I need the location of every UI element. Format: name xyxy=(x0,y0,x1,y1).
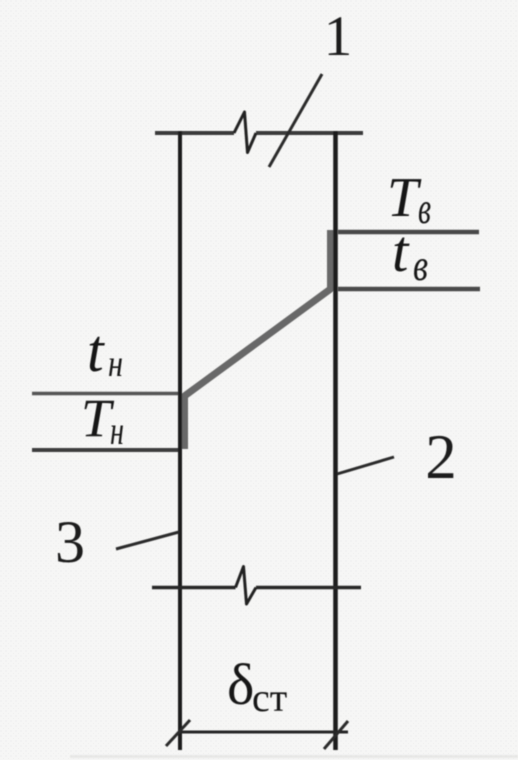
tv level line xyxy=(338,287,480,292)
dimension tick left xyxy=(166,720,190,746)
svg-text:н: н xyxy=(110,408,124,453)
svg-text:t: t xyxy=(87,318,105,384)
svg-text:δ: δ xyxy=(227,652,254,717)
leader line to label 3 xyxy=(116,532,179,549)
svg-text:2: 2 xyxy=(425,422,457,492)
svg-text:ст: ст xyxy=(252,675,287,720)
svg-text:в: в xyxy=(413,241,428,290)
svg-text:в: в xyxy=(418,184,431,233)
Tn level line xyxy=(32,448,178,452)
temperature profile thick gray line xyxy=(185,230,331,449)
wall right face line xyxy=(333,131,338,750)
wall bottom edge line (left segment) xyxy=(152,586,236,590)
wall bottom edge line (right segment) xyxy=(256,586,361,590)
svg-text:н: н xyxy=(108,343,123,385)
svg-text:3: 3 xyxy=(55,509,85,575)
Tv level line xyxy=(338,230,479,235)
top break symbol xyxy=(234,112,256,153)
leader line to label 1 xyxy=(269,74,322,167)
wall top edge line (left segment) xyxy=(155,131,234,135)
svg-text:t: t xyxy=(392,218,410,284)
bottom break symbol xyxy=(236,567,257,605)
dimension line xyxy=(178,731,348,734)
dimension tick right xyxy=(324,721,348,749)
wall left face line xyxy=(178,131,182,750)
tn level line xyxy=(32,392,178,396)
svg-text:1: 1 xyxy=(324,5,353,68)
wall top edge line (right segment) xyxy=(256,131,363,135)
leader line to label 2 xyxy=(337,457,394,474)
scan noise strip at bottom xyxy=(70,755,518,758)
